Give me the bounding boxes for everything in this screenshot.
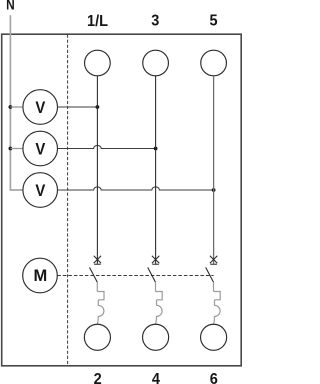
svg-text:5: 5 (209, 12, 217, 29)
switch blade pole 2 (148, 267, 156, 282)
wire bus 5 (213, 76, 215, 264)
wire V1 to phase 1/L (58, 106, 97, 108)
magnetic release pole 2 (156, 300, 163, 324)
svg-text:2: 2 (94, 370, 102, 384)
circuit-breaker function X pole 1 (94, 256, 101, 265)
svg-text:V: V (35, 183, 46, 201)
terminal circle pin 2 (84, 324, 110, 350)
svg-text:3: 3 (151, 12, 159, 29)
node junction dot V2-N (9, 147, 13, 151)
frame border (2, 34, 242, 366)
terminal circle pin 3 (143, 50, 169, 76)
thermal overload release pole 2 (156, 292, 163, 300)
switch blade pole 1 (90, 267, 98, 282)
circuit-breaker function X pole 2 (152, 256, 159, 265)
pole 3 (5 - 6) (201, 50, 227, 350)
wire bus 3 (155, 76, 157, 264)
svg-text:6: 6 (210, 370, 218, 384)
thermal overload release pole 1 (97, 292, 104, 300)
motor operator M (23, 258, 58, 293)
circuit-breaker function X pole 3 (210, 256, 217, 265)
svg-text:N: N (6, 0, 15, 13)
node junction dot V1-N (9, 105, 13, 109)
terminal circle pin 1/L (85, 50, 111, 76)
magnetic release pole 3 (214, 300, 221, 324)
wire V2 left stub (10, 148, 23, 150)
wire V2 to phase 3 with hop over bus 1 (58, 145, 155, 148)
separator dashed line (67, 35, 69, 366)
voltmeter V2 (23, 131, 58, 166)
svg-text:M: M (34, 267, 48, 285)
mechanical linkage dashed (57, 275, 213, 277)
svg-text:1/L: 1/L (87, 13, 108, 30)
magnetic release pole 1 (97, 300, 104, 324)
wire neutral N conductor (10, 15, 23, 190)
pole 2 (3 - 4) (143, 50, 169, 350)
wire V3 to phase 5 with hops over bus 1 and bus 3 (58, 187, 213, 190)
wire bus 1 (96, 76, 98, 264)
voltmeter V3 (23, 173, 58, 208)
terminal circle pin 5 (201, 50, 227, 76)
terminal circle pin 6 (201, 324, 227, 350)
svg-text:V: V (35, 100, 46, 118)
terminal circle pin 4 (143, 324, 169, 350)
wire below blade pole 1 (96, 282, 98, 292)
wire below blade pole 2 (155, 282, 157, 292)
node junction dot V2 on bus 3 (154, 147, 158, 151)
wire below blade pole 3 (213, 282, 215, 292)
pole 1 (1/L - 2) (84, 50, 110, 350)
node junction dot V3 on bus 5 (212, 188, 216, 192)
switch blade pole 3 (206, 267, 214, 282)
svg-text:4: 4 (152, 370, 161, 384)
wire V1 left stub (10, 106, 23, 108)
voltmeter V1 (23, 90, 58, 125)
thermal overload release pole 3 (214, 292, 221, 300)
svg-text:V: V (35, 141, 46, 159)
node junction dot V1 on bus 1/L (96, 105, 100, 109)
